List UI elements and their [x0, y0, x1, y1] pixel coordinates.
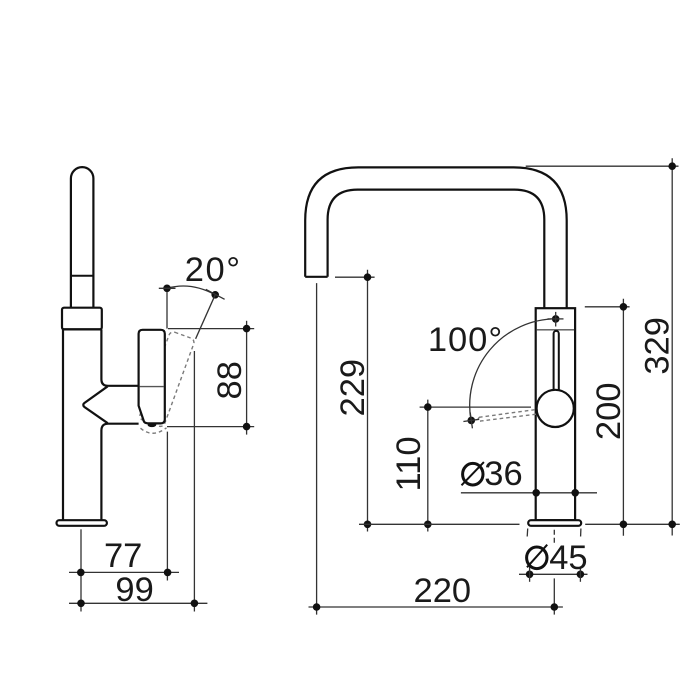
- ticks at top dot: [548, 318, 564, 320]
- dashed swing arc under housing: [141, 428, 167, 433]
- lever pin seen edge-on (rounded slot): [554, 331, 559, 392]
- extension line from tilted handle extreme: [193, 351, 195, 612]
- 229 top dot: [364, 273, 372, 281]
- 88 bottom extension line: [167, 426, 254, 428]
- dia 45 label: [527, 545, 548, 569]
- 110 top dot: [424, 403, 432, 411]
- extension line from housing right edge: [166, 432, 168, 581]
- 229 bottom dot: [364, 521, 372, 529]
- 220 dimension line: [309, 606, 563, 608]
- 100 deg top dot: [552, 315, 560, 323]
- tilted handle axis line: [196, 295, 216, 339]
- dia 45 extension ticks: [526, 529, 529, 537]
- dia 45 tick through left dot: [529, 567, 531, 582]
- svg-text:200: 200: [590, 383, 628, 441]
- 100 deg swing arc: [470, 319, 556, 421]
- svg-text:100°: 100°: [428, 321, 503, 359]
- 110 top extension line: [420, 406, 531, 408]
- 329 bottom dot: [668, 521, 676, 529]
- dia 45 right dot: [577, 571, 585, 579]
- 229 top extension line: [335, 276, 375, 278]
- tangent tick through right dot: [206, 289, 225, 299]
- dia 45 dimension line: [519, 573, 588, 575]
- dia 36 label: [462, 462, 484, 485]
- 100 deg bottom dot: [468, 417, 476, 425]
- 329 dimension line: [671, 158, 673, 535]
- lever ball joint: [537, 390, 574, 427]
- ticks at bottom dot: [463, 419, 479, 421]
- 88 dimension line: [246, 321, 248, 435]
- 200 top extension line: [585, 306, 630, 308]
- svg-text:110: 110: [390, 436, 428, 491]
- counter plane line right segment: [585, 523, 680, 525]
- 220 left dot: [313, 603, 321, 611]
- 329 top dot: [668, 162, 676, 170]
- 77 dimension line: [69, 571, 179, 573]
- 99 dimension line: [69, 602, 207, 604]
- svg-text:77: 77: [104, 537, 142, 575]
- mixer body (front view): [536, 308, 575, 520]
- spout outer contour: [305, 167, 567, 308]
- spout bottom line with corner into lower column: [101, 424, 138, 520]
- svg-text:329: 329: [638, 317, 676, 375]
- 20 deg dot left: [163, 285, 171, 293]
- riser centre extension line (dashed bit under flange): [553, 530, 555, 543]
- 77 left dot: [77, 569, 85, 577]
- body inner line: [537, 329, 574, 331]
- handle housing block (side view): [139, 330, 165, 424]
- 88 top extension line: [168, 328, 254, 330]
- base flange (front view): [528, 520, 581, 526]
- svg-text:36: 36: [484, 455, 522, 493]
- outlet centre extension line: [316, 283, 318, 614]
- dia 45 left dot: [526, 571, 534, 579]
- dia 45 tick through right dot: [579, 567, 581, 582]
- dashed ghost of handle housing tilted 20 deg: [139, 331, 196, 428]
- body column right edge upper with corner into spout top line: [101, 329, 138, 385]
- centerline below base (left view): [80, 529, 82, 611]
- svg-text:20°: 20°: [185, 251, 242, 289]
- housing inner line: [140, 386, 164, 388]
- 200 dimension line: [622, 299, 624, 536]
- tick through left dot: [159, 287, 176, 289]
- svg-text:220: 220: [414, 572, 472, 610]
- svg-text:88: 88: [211, 361, 249, 399]
- handle collar cap: [62, 308, 102, 330]
- 329 top extension line: [526, 165, 679, 167]
- dia 36 leader line: [461, 492, 597, 494]
- 200 top dot: [620, 303, 628, 311]
- lever handle (vertical, rounded top): [71, 167, 94, 308]
- vertical reference from left dot: [166, 292, 168, 329]
- dia 36 left dot: [532, 489, 540, 497]
- spout nozzle seen from side (pentagon): [83, 386, 107, 423]
- svg-text:99: 99: [115, 571, 153, 609]
- 99 left dot: [77, 600, 85, 608]
- riser centre extension line: [553, 578, 555, 614]
- spout inner contour: [328, 190, 545, 309]
- svg-text:229: 229: [334, 359, 372, 417]
- 110 dimension line: [427, 400, 429, 532]
- housing pivot end (dark ellipse): [148, 423, 157, 427]
- 229 dimension line: [367, 270, 369, 532]
- base flange (left view): [57, 520, 107, 526]
- 88 top dot: [243, 325, 251, 333]
- counter plane line left segment: [359, 523, 520, 525]
- 20 deg dot right: [211, 291, 219, 299]
- 110 bottom dot: [424, 521, 432, 529]
- 77 right dot: [164, 569, 172, 577]
- 220 right dot: [551, 603, 559, 611]
- body column left edge: [62, 329, 64, 519]
- spout outlet end line: [305, 276, 327, 278]
- 99 right dot: [191, 600, 199, 608]
- cap bottom line: [62, 328, 102, 330]
- handle joint line: [71, 275, 94, 277]
- 20 deg dimension arc: [167, 286, 215, 295]
- 88 bottom dot: [243, 423, 251, 431]
- dia 36 right dot: [571, 489, 579, 497]
- dashed open lever ghost: [479, 410, 536, 418]
- svg-text:45: 45: [549, 539, 587, 577]
- 200 bottom dot: [620, 521, 628, 529]
